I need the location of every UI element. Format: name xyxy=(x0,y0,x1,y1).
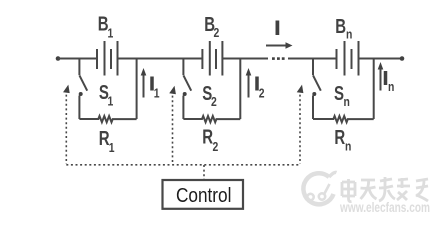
wire main break to Bn xyxy=(288,58,337,60)
label R2 xyxy=(202,125,213,148)
resistor Rn xyxy=(313,116,374,122)
svg-text:n: n xyxy=(346,27,352,41)
battery Bn xyxy=(337,41,359,76)
svg-text:1: 1 xyxy=(109,141,115,155)
resistor R2 xyxy=(183,116,240,122)
svg-text:Control: Control xyxy=(176,184,231,207)
svg-text:I: I xyxy=(275,19,280,40)
label Rn xyxy=(334,126,345,149)
svg-text:2: 2 xyxy=(211,95,217,109)
svg-text:n: n xyxy=(344,95,350,109)
wire main B2 to break xyxy=(222,58,268,60)
svg-text:R: R xyxy=(334,126,345,149)
label Control xyxy=(176,184,231,207)
control arrowhead S1 xyxy=(63,84,71,94)
control dashed vertical to Sn xyxy=(299,90,301,164)
battery B1 xyxy=(97,41,118,76)
current arrow In xyxy=(380,67,382,91)
control dashed vertical to S2 xyxy=(172,91,174,164)
node right terminal xyxy=(400,56,405,61)
wire loop2 right vertical xyxy=(239,59,241,120)
control arrowhead S2 xyxy=(169,85,177,95)
node left terminal xyxy=(56,56,61,61)
battery B2 xyxy=(202,41,222,76)
wire main Bn to right terminal xyxy=(359,58,403,60)
svg-text:n: n xyxy=(345,139,351,153)
wire main B1 to B2 xyxy=(118,58,203,60)
control box xyxy=(163,180,244,209)
svg-text:n: n xyxy=(388,80,394,94)
label Sn xyxy=(334,82,344,105)
watermark chinese brand glyphs xyxy=(342,177,428,202)
svg-text:2: 2 xyxy=(213,140,219,154)
label R1 xyxy=(99,127,110,150)
control arrowhead Sn xyxy=(297,84,305,94)
svg-text:www.elecfans.com: www.elecfans.com xyxy=(339,199,430,215)
resistor R1 xyxy=(79,116,136,122)
wire main left xyxy=(58,58,97,60)
svg-text:2: 2 xyxy=(259,86,265,100)
control dashed vertical to S1 xyxy=(65,90,67,164)
switch S2 xyxy=(183,59,192,120)
svg-text:1: 1 xyxy=(108,26,114,40)
switch Sn xyxy=(312,59,321,120)
current arrow I1 xyxy=(143,73,145,98)
svg-text:1: 1 xyxy=(108,94,114,108)
wire break ellipsis xyxy=(272,57,285,60)
svg-text:R: R xyxy=(202,125,213,148)
control dashed bus horizontal xyxy=(66,164,300,166)
wire loop1 right vertical xyxy=(136,59,138,120)
current arrow I xyxy=(266,45,287,47)
watermark elecfans logo ring xyxy=(303,172,336,204)
wire loop3 right vertical xyxy=(373,59,375,120)
current arrow I2 xyxy=(248,73,250,98)
switch S1 xyxy=(79,59,88,120)
label B1 xyxy=(98,12,109,35)
svg-text:1: 1 xyxy=(154,86,160,100)
svg-text:S: S xyxy=(334,82,344,105)
svg-text:2: 2 xyxy=(214,26,220,40)
label B2 xyxy=(204,13,215,36)
label S1 xyxy=(99,81,109,104)
svg-text:B: B xyxy=(335,15,346,38)
label S2 xyxy=(202,82,212,105)
label Bn xyxy=(335,15,346,38)
control dashed link to box xyxy=(203,165,205,180)
